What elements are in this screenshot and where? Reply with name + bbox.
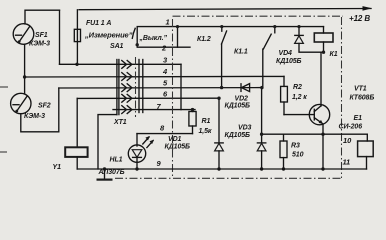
ground bar <box>97 179 113 181</box>
wire base from R2 <box>284 114 314 116</box>
LED HL1 circle <box>128 145 145 162</box>
wire 4 horizontal (sensors line) <box>25 75 284 78</box>
enclosure dash border bottom <box>115 177 342 179</box>
node SF junction on wire 4 <box>23 75 26 78</box>
svg-text:SF1: SF1 <box>35 32 48 39</box>
svg-text:SF2: SF2 <box>38 103 51 110</box>
resistor R3 top lead <box>283 134 285 141</box>
node emitter/wire10 <box>321 133 324 136</box>
wire +12V top rail from fuse to arrow <box>79 9 371 10</box>
wire 1 horizontal (top bus) <box>137 26 323 28</box>
SF2 contact dot <box>15 110 18 113</box>
diode VD1 lead from wire6 <box>218 98 220 143</box>
relay contact K1.1 arm <box>263 34 271 49</box>
wire 7 horizontal <box>113 109 195 111</box>
bell E1 bottom lead <box>366 157 368 169</box>
svg-text:VD1: VD1 <box>168 136 182 143</box>
node VD3 line wire10 <box>260 133 263 136</box>
node fuse to wire 3 <box>75 63 78 66</box>
node K1.1 on wire1 <box>273 25 276 28</box>
wire 5 horizontal <box>59 87 262 89</box>
chevron contact row pin4 <box>122 73 132 81</box>
wire 3 horizontal <box>60 63 182 65</box>
resistor R2 body <box>281 86 288 102</box>
node VD3 wire9 <box>260 167 263 170</box>
XT1 shell wire to ground <box>98 115 117 169</box>
node VD1 wire9 <box>217 167 220 170</box>
resistor R1 top lead from wire7 <box>192 110 194 112</box>
svg-text:„Измерение”: „Измерение” <box>84 31 133 40</box>
node K1.1 line at wire5 <box>260 86 263 89</box>
wire Y1 feed down from wire 6 <box>76 98 78 147</box>
diode VD4 lead from wire1 <box>298 27 300 36</box>
diode VD3 cathode bar <box>257 142 265 144</box>
wire SF1 top lead up and right <box>25 10 60 24</box>
transistor VT1 base bar <box>313 109 315 120</box>
node VD4/K1 junction <box>322 51 325 54</box>
SA1 arm bracket <box>132 28 135 38</box>
SF1 contact stub <box>16 34 22 36</box>
resistor R2 bottom lead <box>283 102 285 115</box>
diode VD2 cathode bar <box>240 84 242 92</box>
svg-text:FU1 1 А: FU1 1 А <box>86 20 111 27</box>
svg-text:АЛ307Б: АЛ307Б <box>98 169 125 176</box>
svg-text:СИ-206: СИ-206 <box>339 124 363 131</box>
XT1 connector left bar b <box>118 60 120 115</box>
node K1.2 on wire1 <box>220 25 223 28</box>
XT1 mating dash line <box>135 57 137 117</box>
chevron contact row pin3 <box>122 61 132 69</box>
chevron contact row pin7 <box>122 106 132 114</box>
svg-text:КД105Б: КД105Б <box>225 132 251 139</box>
node K1.2 to wire5 <box>220 86 223 89</box>
svg-text:+12 В: +12 В <box>349 14 370 23</box>
svg-text:SA1: SA1 <box>110 43 124 50</box>
+12 V arrow head <box>363 6 373 11</box>
svg-text:VD2: VD2 <box>235 96 249 103</box>
svg-text:К1.1: К1.1 <box>234 49 248 56</box>
bell E1 box <box>358 141 374 157</box>
transistor VT1 emitter arrow <box>319 120 323 124</box>
XT1 connector right bar a <box>138 60 140 113</box>
LED HL1 cathode bar <box>133 156 142 158</box>
wire SF2 bottom loop to wire 5 <box>21 88 59 132</box>
bell E1 top lead <box>366 134 368 141</box>
svg-text:R1: R1 <box>202 118 211 125</box>
enclosure dash border top <box>173 15 344 17</box>
svg-text:10: 10 <box>343 136 352 145</box>
wire 6 horizontal <box>77 97 219 99</box>
transistor VT1 circle <box>309 104 329 124</box>
SF1 contact dot <box>18 40 21 43</box>
svg-text:КД105Б: КД105Б <box>225 103 251 110</box>
svg-text:1,2 к: 1,2 к <box>292 94 307 101</box>
svg-text:К1: К1 <box>330 51 338 58</box>
relay contact K1.2 stub from wire1 <box>221 27 223 32</box>
enclosure dash border right <box>341 17 343 178</box>
svg-text:КД105Б: КД105Б <box>276 58 302 65</box>
border dash fragment left mid <box>0 86 8 88</box>
svg-text:11: 11 <box>343 158 351 167</box>
wire K1.1 down through wire5 to VD3 <box>262 49 263 143</box>
svg-text:КД105Б: КД105Б <box>165 144 191 151</box>
chevron contact row pin5 <box>122 84 132 92</box>
electromagnet Y1 box <box>65 147 87 157</box>
diode VD1 cathode bar <box>215 142 223 144</box>
svg-text:„Выкл.”: „Выкл.” <box>139 35 168 42</box>
XT1 connector left bar a <box>116 60 118 115</box>
SF2 contact arm <box>16 96 27 112</box>
svg-text:ХТ1: ХТ1 <box>113 119 127 126</box>
jumper from wire 3 down to wire 7 <box>180 64 182 109</box>
diode VD4 lead to junction <box>299 43 324 52</box>
resistor R2 top lead from wire4 <box>283 76 285 86</box>
SF1 reed switch circle <box>13 24 34 45</box>
svg-text:R3: R3 <box>291 143 300 150</box>
node VD1 wire6 <box>217 97 220 100</box>
svg-text:КТ608Б: КТ608Б <box>350 95 375 102</box>
border dash fragment left low <box>0 151 7 153</box>
svg-text:Y1: Y1 <box>53 164 62 171</box>
resistor R1 body <box>189 112 196 127</box>
svg-text:1,5к: 1,5к <box>199 128 212 135</box>
relay K1 lead from wire1 <box>323 27 325 33</box>
node Выкл box corner dot <box>136 43 139 46</box>
chevron contact row pin6 <box>122 94 132 102</box>
svg-text:510: 510 <box>292 152 304 159</box>
diode VD3 triangle <box>257 143 266 151</box>
LED HL1 light arrow a <box>143 137 149 144</box>
enclosure dash border vertical at connector <box>172 19 174 177</box>
svg-text:R2: R2 <box>293 84 302 91</box>
diode VD2 triangle <box>242 84 250 92</box>
wire 2 horizontal <box>137 46 190 48</box>
LED HL1 light arrow b <box>147 141 153 148</box>
SF2 contact stub <box>13 104 19 106</box>
node R1 wire7 <box>191 108 194 111</box>
svg-text:HL1: HL1 <box>110 157 123 164</box>
node R3 wire9 <box>282 167 285 170</box>
svg-text:КЭМ-3: КЭМ-3 <box>29 41 50 48</box>
diode VD1 triangle <box>215 143 224 151</box>
svg-text:VT1: VT1 <box>354 86 367 93</box>
svg-text:1: 1 <box>166 18 170 27</box>
wire 8 horizontal <box>137 133 193 135</box>
node HL1 wire9 <box>135 167 138 170</box>
wire 10 horizontal <box>262 133 368 135</box>
SF1 contact arm <box>19 27 30 43</box>
wire collector riser <box>320 52 322 106</box>
wire SF1 bottom to SF2 top <box>24 44 26 93</box>
transistor VT1 collector diagonal <box>314 106 321 112</box>
node emitter/wire9 <box>321 167 324 170</box>
LED HL1 triangle <box>132 150 142 158</box>
LED HL1 light arrow b head <box>150 140 155 145</box>
Выкл callout box left and bottom <box>136 27 138 45</box>
ground stem <box>104 169 106 180</box>
wire K1.2 down to wire 5 <box>221 44 223 88</box>
node wire1/wire2 drop <box>176 25 179 28</box>
XT1 connector right bar b <box>142 60 144 113</box>
svg-text:КЭМ-3: КЭМ-3 <box>24 113 45 120</box>
SF2 reed switch circle <box>11 93 31 113</box>
node ground on wire9 <box>103 167 106 170</box>
LED HL1 light arrow a head <box>145 136 150 141</box>
resistor R1 bottom lead to wire8 <box>192 126 194 134</box>
LED HL1 lead to wire9 <box>136 157 138 169</box>
relay K1 lead to junction <box>323 42 325 52</box>
transistor VT1 emitter diagonal <box>314 118 323 124</box>
wire drop wire1 to wire2 <box>177 27 179 48</box>
wire down from SF1 top run to wire 3 <box>59 10 61 64</box>
fuse FU1 lead through <box>76 10 78 65</box>
relay contact K1.1 stub from wire1 <box>274 27 276 33</box>
fuse FU1 body <box>74 29 80 41</box>
node VD4 on wire1 <box>297 25 300 28</box>
LED HL1 anode lead from wire8 <box>136 134 138 146</box>
diode VD4 triangle <box>295 36 304 44</box>
wire 9 horizontal (common) <box>77 168 366 170</box>
svg-text:VD3: VD3 <box>238 125 252 132</box>
Y1 bottom lead <box>76 157 78 169</box>
diode VD3 lead to wire9 <box>261 151 263 169</box>
svg-text:Е1: Е1 <box>354 115 363 122</box>
resistor R3 bottom lead <box>283 158 285 169</box>
svg-text:К1.2: К1.2 <box>197 36 211 43</box>
diode VD1 lead to wire9 <box>218 151 220 169</box>
relay coil K1 box <box>314 33 333 42</box>
svg-text:VD4: VD4 <box>279 50 293 57</box>
resistor R3 body <box>280 141 287 158</box>
wire emitter down to wire9 <box>322 124 324 169</box>
diode VD4 cathode bar <box>295 34 303 36</box>
relay contact K1.2 arm <box>222 31 227 44</box>
